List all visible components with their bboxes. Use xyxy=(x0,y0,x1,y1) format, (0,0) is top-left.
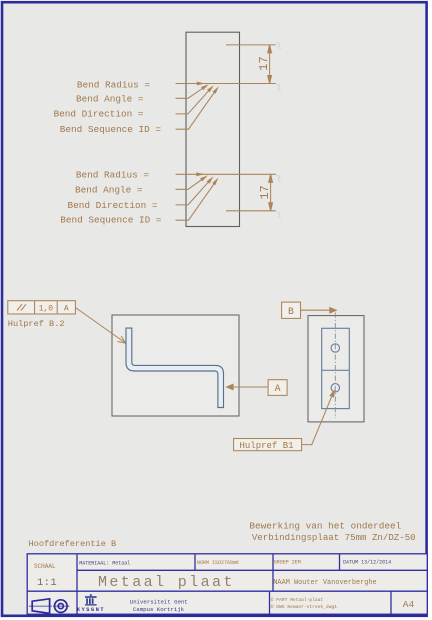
svg-text:Universiteit Gent: Universiteit Gent xyxy=(130,598,188,605)
GD&T leader with open arrowhead xyxy=(75,308,124,343)
svg-text:Verbindingsplaat 75mm Zn/DZ-50: Verbindingsplaat 75mm Zn/DZ-50 xyxy=(252,532,416,543)
svg-text:Bend Direction =: Bend Direction = xyxy=(53,109,143,120)
svg-text:B: B xyxy=(288,306,294,317)
svg-text:NORM ISO2768mK: NORM ISO2768mK xyxy=(197,560,239,566)
svg-text:© DWG Nemaer-streek_dwg1: © DWG Nemaer-streek_dwg1 xyxy=(271,603,337,610)
svg-text:A: A xyxy=(64,304,69,313)
bend line 2 xyxy=(176,173,276,175)
leaders block 1 xyxy=(176,87,215,129)
bend annotation labels block 2 xyxy=(60,170,162,226)
extension line bottom xyxy=(226,210,276,212)
B view label xyxy=(282,302,301,318)
bend annotation labels block 1 xyxy=(53,79,161,135)
dimension 17 (top) xyxy=(268,45,272,84)
svg-text:1,0: 1,0 xyxy=(39,304,54,313)
bend line 1 xyxy=(176,83,276,85)
svg-text:17: 17 xyxy=(258,185,272,199)
svg-text:1:1: 1:1 xyxy=(37,577,57,589)
holes xyxy=(331,344,339,352)
extension line top xyxy=(226,44,276,46)
svg-text:KYSGNT: KYSGNT xyxy=(77,607,105,613)
university logo xyxy=(77,594,105,613)
title block texts xyxy=(34,560,415,611)
svg-text:Bend Angle =: Bend Angle = xyxy=(75,184,143,195)
svg-text:SCHAAL: SCHAAL xyxy=(34,563,56,570)
centerline xyxy=(334,313,336,419)
Hulpref B1 callout xyxy=(234,439,302,451)
svg-text:GROEP 2EM: GROEP 2EM xyxy=(274,560,301,566)
svg-text:A: A xyxy=(275,383,281,394)
svg-text:Hulpref B1: Hulpref B1 xyxy=(240,441,294,451)
svg-text:Bend Sequence ID =: Bend Sequence ID = xyxy=(60,124,162,135)
dimension 17 (bottom) xyxy=(269,174,273,211)
svg-text:Campus Kortrijk: Campus Kortrijk xyxy=(133,606,185,613)
leaders block 2 xyxy=(176,178,215,220)
svg-text:17: 17 xyxy=(257,56,271,70)
GD&T feature control frame xyxy=(8,301,76,314)
front view plate xyxy=(322,328,350,408)
bent plate profile (side view) xyxy=(126,328,224,407)
svg-text:Bend Angle =: Bend Angle = xyxy=(76,94,144,105)
svg-text:A4: A4 xyxy=(403,599,415,610)
svg-text:NAAM Wouter Vanoverberghe: NAAM Wouter Vanoverberghe xyxy=(273,579,376,587)
svg-text:MATERIAAL: Metaal: MATERIAAL: Metaal xyxy=(79,561,130,567)
front view border xyxy=(308,316,364,422)
faint hooks at extension line ends xyxy=(276,43,281,219)
svg-text:Bend Radius =: Bend Radius = xyxy=(76,170,150,181)
side view border xyxy=(112,315,239,416)
svg-text:Hulpref B.2: Hulpref B.2 xyxy=(8,319,65,329)
svg-text:Hoofdreferentie B: Hoofdreferentie B xyxy=(29,539,117,549)
svg-text:Bend Direction =: Bend Direction = xyxy=(67,200,157,211)
svg-text:DATUM 13/12/2014: DATUM 13/12/2014 xyxy=(343,560,391,566)
svg-text:Bend Sequence ID =: Bend Sequence ID = xyxy=(60,215,162,226)
svg-text:© PART Metaal-plaat: © PART Metaal-plaat xyxy=(271,596,324,603)
svg-text:Metaal plaat: Metaal plaat xyxy=(98,574,235,591)
svg-text:Bend Radius =: Bend Radius = xyxy=(77,79,151,90)
first-angle projection symbol xyxy=(32,599,67,614)
flat pattern rectangle xyxy=(186,32,240,226)
svg-text:Bewerking van het onderdeel: Bewerking van het onderdeel xyxy=(249,521,401,532)
section arrow A xyxy=(225,384,233,391)
